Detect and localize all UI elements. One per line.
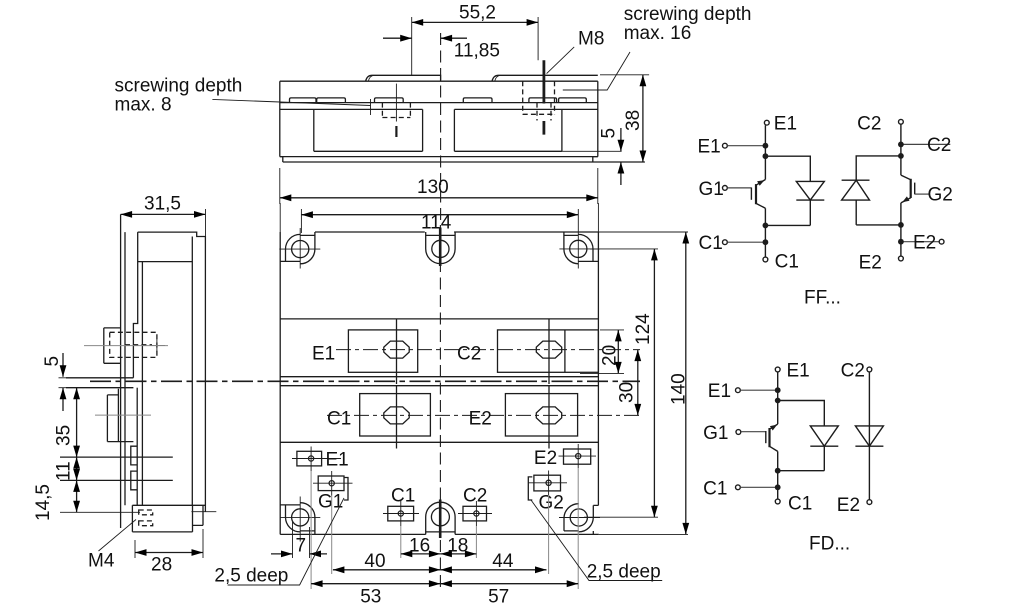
svg-text:E1: E1 bbox=[312, 344, 335, 365]
top plate line bbox=[280, 102, 598, 104]
svg-text:C1: C1 bbox=[775, 252, 799, 273]
svg-text:FD...: FD... bbox=[809, 533, 850, 554]
terminal C2 top (FF right) bbox=[899, 119, 904, 124]
svg-text:E2: E2 bbox=[469, 409, 492, 430]
wire C1 left bbox=[740, 486, 777, 488]
label M8 with leader bbox=[547, 29, 605, 74]
node bbox=[775, 387, 781, 393]
node bbox=[898, 222, 904, 228]
svg-text:130: 130 bbox=[417, 177, 449, 198]
right inner block bbox=[454, 109, 562, 151]
svg-text:max. 8: max. 8 bbox=[115, 94, 172, 115]
mounting lug top-left bbox=[279, 228, 320, 269]
M8 screw shank (thick line) bbox=[543, 60, 546, 134]
svg-text:E1: E1 bbox=[787, 361, 810, 382]
note 2,5 deep (right) with leader bbox=[531, 500, 662, 582]
wire to diode D1 top bbox=[765, 156, 810, 181]
M4 hidden hole bbox=[139, 510, 153, 526]
node bbox=[775, 398, 781, 404]
left inner block bbox=[314, 109, 423, 151]
terminal E1 top (FD) bbox=[775, 367, 780, 372]
dimension 20 bbox=[580, 330, 624, 374]
terminal G1 (FD) bbox=[736, 430, 741, 435]
wire to diode D2 top bbox=[856, 156, 901, 180]
svg-text:G2: G2 bbox=[539, 492, 564, 513]
terminal C1 screw hex bbox=[384, 407, 409, 424]
dimension 16 bbox=[401, 535, 441, 557]
mounting lug bottom-center bbox=[426, 502, 455, 534]
tab extension lines bbox=[59, 378, 67, 388]
dimension 18 bbox=[440, 535, 476, 557]
svg-text:G1: G1 bbox=[703, 423, 728, 444]
terminal C1 rect bbox=[360, 394, 431, 436]
dimension 28 bbox=[135, 529, 203, 576]
terminal E1 screw hex bbox=[384, 341, 409, 358]
svg-text:E1: E1 bbox=[774, 113, 797, 134]
svg-text:16: 16 bbox=[409, 535, 430, 556]
terminal C2 rect bbox=[498, 330, 599, 372]
module vertical centerline (elevation) bbox=[440, 33, 442, 221]
svg-text:C1: C1 bbox=[699, 233, 723, 254]
svg-text:11,85: 11,85 bbox=[454, 40, 500, 61]
dimension 11,85 bbox=[383, 35, 500, 62]
row centerline E1-C2 bbox=[336, 349, 640, 351]
inter-view line (gray, upper terminal) bbox=[84, 345, 168, 347]
svg-text:5: 5 bbox=[599, 128, 620, 139]
aux terminal G1 bbox=[313, 471, 353, 512]
dimension 140 bbox=[669, 232, 690, 534]
aux terminal C2 bbox=[458, 486, 492, 527]
svg-text:31,5: 31,5 bbox=[144, 194, 181, 215]
bottom flange bbox=[132, 505, 216, 532]
dimension 5 (left) bbox=[42, 353, 66, 411]
raised tab left bbox=[366, 75, 441, 81]
svg-text:38: 38 bbox=[623, 110, 644, 131]
svg-text:C1: C1 bbox=[703, 478, 727, 499]
aux tab lower bbox=[131, 471, 137, 490]
svg-text:28: 28 bbox=[151, 555, 172, 576]
terminal C1 left (FF) bbox=[723, 240, 728, 245]
M8 hole inner hidden lines bbox=[537, 103, 551, 121]
svg-text:2,5 deep: 2,5 deep bbox=[587, 561, 661, 582]
wire from diode D3 bottom bbox=[778, 470, 825, 472]
plan outline bottom edge bbox=[280, 533, 599, 535]
IGBT T3 bbox=[766, 424, 778, 451]
left long edge lines bbox=[121, 214, 125, 528]
dimension 53 bbox=[311, 580, 440, 607]
wire G1 bbox=[727, 187, 751, 189]
label M4 with leader bbox=[88, 520, 136, 572]
terminal C2 screw hex bbox=[536, 341, 561, 358]
M8 threaded hole hidden lines right bbox=[523, 81, 555, 114]
plan outline left edge bbox=[279, 232, 281, 534]
screw centerline E1 bbox=[396, 319, 398, 449]
svg-text:C2: C2 bbox=[457, 344, 481, 365]
main horizontal centerline bbox=[90, 380, 640, 382]
svg-text:E1: E1 bbox=[698, 137, 721, 158]
svg-text:E1: E1 bbox=[708, 381, 731, 402]
terminal C1 left (FD) bbox=[736, 485, 741, 490]
svg-text:53: 53 bbox=[360, 587, 381, 608]
wire E1 left bbox=[727, 145, 765, 147]
extension lines for dim 7 bbox=[293, 522, 310, 558]
svg-text:44: 44 bbox=[492, 551, 514, 572]
terminal C1 bottom (FD) bbox=[775, 499, 780, 504]
dimension 31,5 bbox=[121, 194, 206, 237]
dimension 11 bbox=[54, 457, 81, 481]
terminal bump 6 bbox=[559, 98, 587, 103]
node bbox=[763, 223, 769, 229]
diode D1 bbox=[796, 181, 824, 225]
svg-text:2,5 deep: 2,5 deep bbox=[214, 565, 288, 586]
row centerline C1-E2 bbox=[327, 414, 640, 416]
note screwing depth max. 8 with leader bbox=[115, 76, 371, 116]
plan outline right edge bbox=[593, 232, 598, 518]
svg-text:C2: C2 bbox=[841, 361, 865, 382]
svg-text:35: 35 bbox=[54, 425, 75, 446]
node bbox=[763, 143, 769, 149]
dimension 114 bbox=[301, 209, 578, 234]
svg-text:E2: E2 bbox=[913, 233, 936, 254]
screw centerline C2/E2 bbox=[548, 319, 550, 449]
svg-text:screwing depth: screwing depth bbox=[115, 76, 243, 97]
svg-text:E2: E2 bbox=[534, 448, 557, 469]
plan outline top edge bbox=[315, 231, 598, 233]
wire C2 right bbox=[901, 143, 950, 145]
terminal C2 top (FD diode) bbox=[867, 367, 872, 372]
dimension 40 bbox=[333, 551, 441, 573]
dimension 35 bbox=[54, 388, 81, 457]
svg-text:C2: C2 bbox=[463, 486, 487, 507]
svg-text:57: 57 bbox=[488, 587, 509, 608]
dimension 44 bbox=[440, 551, 546, 573]
IGBT T1 bbox=[751, 180, 765, 209]
terminal bump 5 bbox=[529, 98, 557, 103]
aux terminal E2 bbox=[534, 444, 596, 469]
inter-view line (gray) bbox=[95, 414, 151, 416]
dimension 55,2 bbox=[412, 3, 538, 76]
aux level lines bbox=[60, 457, 173, 480]
extension lines from aux terminals bbox=[311, 468, 578, 589]
lower left block bbox=[107, 389, 133, 442]
svg-text:G1: G1 bbox=[699, 179, 724, 200]
dimension 38 bbox=[600, 75, 649, 162]
svg-text:max. 16: max. 16 bbox=[624, 23, 692, 44]
node bbox=[898, 142, 904, 148]
plan vertical centerline bbox=[439, 225, 441, 590]
svg-text:G2: G2 bbox=[928, 184, 953, 205]
terminal E1 left (FF) bbox=[723, 143, 728, 148]
svg-text:C1: C1 bbox=[788, 493, 812, 514]
wire rail T1 bbox=[764, 125, 766, 257]
5mm tab bbox=[66, 378, 133, 388]
left screw centerline bbox=[395, 84, 397, 122]
wire E2 right bbox=[901, 241, 939, 243]
dimension 7 bbox=[271, 535, 327, 557]
IGBT T2 bbox=[901, 175, 915, 203]
side view outline bbox=[133, 232, 205, 512]
node bbox=[775, 468, 781, 474]
svg-text:7: 7 bbox=[296, 535, 307, 556]
terminal screw side block bbox=[104, 328, 121, 363]
mounting lug top-center bbox=[426, 232, 455, 264]
raised tab right bbox=[492, 75, 598, 81]
module body outline bbox=[280, 81, 645, 162]
terminal E1 left (FD) bbox=[736, 388, 741, 393]
note 2,5 deep (left) with leader bbox=[214, 498, 344, 586]
svg-text:C1: C1 bbox=[327, 409, 351, 430]
svg-text:C1: C1 bbox=[391, 486, 415, 507]
svg-text:18: 18 bbox=[447, 535, 468, 556]
svg-text:E2: E2 bbox=[837, 495, 860, 516]
terminal E2 screw hex bbox=[536, 407, 561, 424]
baseplate extension line to 5-dim bbox=[562, 150, 622, 152]
wire from diode D1 bottom bbox=[765, 224, 810, 226]
svg-text:124: 124 bbox=[633, 313, 654, 345]
aux terminal C1 bbox=[383, 486, 419, 527]
terminal bump 4 bbox=[463, 98, 492, 103]
wire G1 bbox=[741, 431, 766, 433]
note screwing depth max. 16 with leader bbox=[563, 4, 752, 90]
svg-text:FF...: FF... bbox=[804, 288, 841, 309]
dimension 57 bbox=[440, 580, 578, 607]
svg-text:E2: E2 bbox=[859, 252, 882, 273]
mounting lug bottom-right bbox=[559, 504, 600, 532]
left screw hole hidden lines bbox=[382, 103, 410, 118]
bottom-right corner step bbox=[592, 531, 594, 534]
aux terminal E1 bbox=[292, 447, 349, 472]
svg-text:screwing depth: screwing depth bbox=[624, 4, 752, 25]
dimension 130 bbox=[280, 168, 598, 204]
svg-text:C2: C2 bbox=[857, 113, 881, 134]
svg-text:M4: M4 bbox=[88, 551, 115, 572]
wire from diode D2 bottom bbox=[856, 224, 901, 226]
extension line 14,5 bbox=[60, 511, 140, 513]
terminal C1 bottom (FF left) bbox=[763, 257, 768, 262]
wire to diode D3 top bbox=[778, 401, 825, 426]
secondary plate line bbox=[280, 108, 598, 110]
diode D2 bbox=[842, 180, 870, 225]
terminal E1 rect bbox=[348, 330, 417, 372]
svg-text:114: 114 bbox=[421, 213, 452, 234]
node bbox=[898, 153, 904, 159]
dimension 30 bbox=[616, 350, 641, 416]
wire G2 bbox=[915, 193, 929, 195]
svg-text:C2: C2 bbox=[927, 135, 951, 156]
node bbox=[898, 239, 904, 245]
wire rail T2 bbox=[900, 124, 902, 256]
aux terminal G2 bbox=[528, 471, 567, 514]
dimension 5 (baseplate) bbox=[599, 128, 625, 185]
svg-text:140: 140 bbox=[669, 373, 690, 405]
dimension 124 bbox=[584, 249, 658, 517]
node bbox=[763, 239, 769, 245]
svg-text:20: 20 bbox=[600, 345, 621, 366]
svg-text:55,2: 55,2 bbox=[459, 3, 496, 24]
terminal bump 2 bbox=[317, 98, 346, 103]
horizontal band lines bbox=[280, 319, 598, 442]
wire C1 left bbox=[727, 241, 765, 243]
diode D3 bbox=[810, 426, 838, 471]
node bbox=[775, 484, 781, 490]
svg-text:14,5: 14,5 bbox=[33, 484, 54, 521]
wire E1 left bbox=[740, 389, 777, 391]
terminal E2 bottom (FD diode) bbox=[867, 500, 872, 505]
svg-text:5: 5 bbox=[42, 356, 63, 367]
diode D4 bbox=[855, 426, 883, 446]
terminal E2 bottom (FF right) bbox=[899, 256, 904, 261]
terminal bump 1 bbox=[290, 98, 317, 103]
svg-text:E1: E1 bbox=[326, 449, 349, 470]
wire rail D4 bbox=[868, 372, 870, 500]
node bbox=[763, 153, 769, 159]
svg-text:M8: M8 bbox=[578, 29, 604, 50]
mounting lug top-right bbox=[559, 228, 600, 269]
svg-text:30: 30 bbox=[616, 382, 637, 403]
svg-text:11: 11 bbox=[54, 461, 75, 481]
terminal E1 top (FF left) bbox=[764, 120, 769, 125]
terminal bump 3 bbox=[375, 98, 404, 103]
dimension 14,5 bbox=[33, 480, 80, 521]
wire rail T3 bbox=[777, 372, 779, 499]
aux tab upper bbox=[131, 446, 137, 465]
terminal E2 rect bbox=[505, 394, 577, 436]
terminal G1 (FF) bbox=[723, 186, 728, 191]
screw hidden box (side) bbox=[110, 332, 157, 357]
mounting lug bottom-left bbox=[280, 497, 320, 542]
svg-text:40: 40 bbox=[364, 551, 385, 572]
svg-text:G1: G1 bbox=[318, 491, 343, 512]
